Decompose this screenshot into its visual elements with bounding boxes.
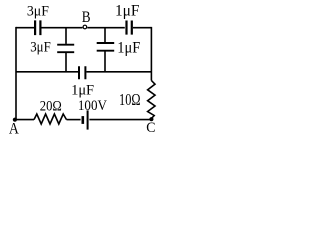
svg-text:10Ω: 10Ω [119, 90, 141, 109]
svg-text:1μF: 1μF [115, 2, 140, 19]
svg-text:3μF: 3μF [30, 40, 51, 56]
svg-text:A: A [9, 121, 19, 138]
svg-text:1μF: 1μF [71, 82, 94, 98]
svg-text:C: C [146, 120, 155, 136]
svg-text:3μF: 3μF [27, 3, 49, 19]
svg-text:20Ω: 20Ω [40, 98, 62, 114]
svg-text:100V: 100V [78, 98, 107, 114]
svg-text:1μF: 1μF [117, 40, 140, 57]
svg-text:B: B [82, 9, 91, 26]
